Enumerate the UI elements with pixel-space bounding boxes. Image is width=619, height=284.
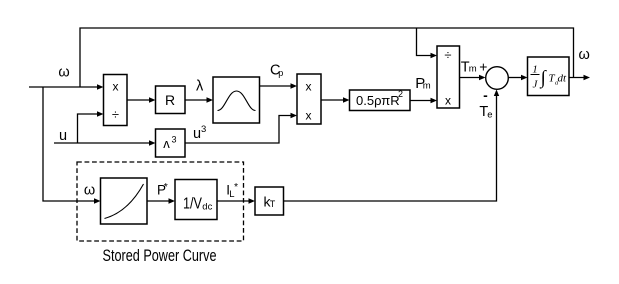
node arrow into Cp curve block <box>207 97 214 102</box>
node u3 label <box>193 124 206 142</box>
wire power curve to 1/Vdc <box>147 200 171 202</box>
svg-text:m: m <box>469 64 477 75</box>
node omega input arrow into multiplier <box>97 84 104 89</box>
svg-text:÷: ÷ <box>444 48 451 63</box>
svg-text:∫: ∫ <box>540 68 548 90</box>
wire Cp to multiplier top <box>260 85 293 87</box>
svg-text:x: x <box>445 93 451 107</box>
node arrow into cube block <box>149 140 156 145</box>
svg-text:x: x <box>113 80 119 94</box>
node P* label <box>157 181 168 198</box>
svg-text:ω: ω <box>58 64 69 80</box>
wire u input <box>54 142 151 144</box>
svg-text:λ: λ <box>196 79 204 95</box>
wire omega input <box>29 86 99 88</box>
svg-text:2: 2 <box>398 89 403 99</box>
node summing junction circle <box>486 67 509 90</box>
svg-text:+: + <box>479 59 487 75</box>
block power curve <box>101 178 148 224</box>
svg-text:x: x <box>306 79 312 93</box>
wire feedback omega top <box>80 28 574 87</box>
svg-text:1/V: 1/V <box>183 196 202 213</box>
svg-text:u: u <box>193 126 201 142</box>
node omega output label <box>579 47 590 63</box>
node Tm label <box>461 60 477 76</box>
wire R to Cp curve <box>185 99 209 101</box>
node arrow into R <box>149 97 156 102</box>
svg-text:1: 1 <box>532 64 538 76</box>
node minus sign <box>484 95 488 97</box>
svg-text:u: u <box>59 128 67 144</box>
svg-text:m: m <box>423 80 431 91</box>
wire Tm to summing junction <box>460 77 482 79</box>
wire rho block to torque divider <box>410 100 433 102</box>
svg-text:p: p <box>278 68 283 78</box>
node Pm label <box>415 75 430 92</box>
wire B1 to R <box>127 99 151 101</box>
wire summing junction to integrator <box>508 77 523 79</box>
block 0.5 rho pi R^2 <box>350 89 411 111</box>
node output arrow <box>584 75 591 80</box>
node stored power curve caption <box>103 247 217 265</box>
wire feedback drop to divider input <box>417 28 433 56</box>
svg-text:Stored Power Curve: Stored Power Curve <box>103 247 217 265</box>
node arrow into divider input of torque block <box>431 53 438 58</box>
block multiplier B2 <box>297 74 321 124</box>
node arrow into kT <box>249 198 256 203</box>
node arrow into multiplier top input <box>291 83 298 88</box>
svg-text:ʌ: ʌ <box>163 136 170 151</box>
svg-text:dc: dc <box>202 201 212 212</box>
wire omega branch down to power curve <box>43 87 96 201</box>
svg-text:e: e <box>487 110 492 121</box>
block torque divide-multiply B3 <box>437 46 460 108</box>
node omega label <box>58 64 69 80</box>
node arrow into power curve block <box>94 198 101 203</box>
node arrow into rho block <box>343 97 350 102</box>
node u label <box>59 128 67 144</box>
svg-text:R: R <box>165 92 175 108</box>
node arrow into Vdc block <box>169 198 176 203</box>
node arrow into integrator <box>521 75 528 80</box>
svg-text:3: 3 <box>172 135 177 145</box>
node omega label lower <box>84 183 95 199</box>
block dashed stored power curve group <box>77 162 244 241</box>
node IL* label <box>226 181 238 200</box>
node plus sign <box>479 59 487 75</box>
svg-text:ω: ω <box>84 183 95 199</box>
wire Vdc to kT <box>217 200 251 202</box>
block cube <box>156 129 186 157</box>
svg-text:0.5ρπR: 0.5ρπR <box>356 93 400 108</box>
block kT <box>255 187 284 215</box>
svg-text:T: T <box>270 199 276 209</box>
node Cp label <box>270 63 283 79</box>
node arrow into divider input of B1 <box>97 111 104 116</box>
node lambda label <box>196 79 204 95</box>
wire B2 to rho block <box>321 99 345 101</box>
block 1/Vdc <box>175 180 217 220</box>
wire integrator output omega <box>569 77 586 79</box>
svg-text:*: * <box>164 181 168 193</box>
svg-text:x: x <box>306 108 312 122</box>
block B1 multiply-divide <box>104 75 128 126</box>
svg-text:÷: ÷ <box>112 107 119 122</box>
node Te label <box>479 104 492 121</box>
wire u branch to divider input <box>78 114 100 143</box>
node arrow into summing junction <box>479 75 486 80</box>
svg-text:*: * <box>234 181 238 193</box>
node arrow up into summing junction <box>494 90 499 97</box>
block Cp bell curve <box>213 77 260 123</box>
svg-text:J: J <box>533 79 539 91</box>
block integrator 1/J <box>528 57 570 96</box>
node arrow into multiplier bottom input <box>291 113 298 118</box>
svg-text:ω: ω <box>579 47 590 63</box>
node arrow into x input of torque block <box>431 98 438 103</box>
svg-text:3: 3 <box>201 124 206 135</box>
wire Te feedback from kT <box>284 94 497 201</box>
block R gearbox ratio <box>156 86 186 114</box>
wire cube output to multiplier bottom <box>185 116 293 144</box>
svg-text:dt: dt <box>558 73 568 85</box>
